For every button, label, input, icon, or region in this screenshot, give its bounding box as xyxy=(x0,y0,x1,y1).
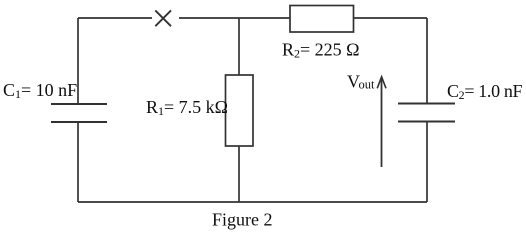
svg-text:R2= 225 Ω: R2= 225 Ω xyxy=(282,40,360,61)
svg-text:C2= 1.0 nF: C2= 1.0 nF xyxy=(447,81,523,102)
svg-text:Figure 2: Figure 2 xyxy=(212,210,273,230)
svg-text:R1= 7.5 kΩ: R1= 7.5 kΩ xyxy=(146,97,228,118)
svg-text:C1= 10 nF: C1= 10 nF xyxy=(3,80,77,101)
svg-text:Vout: Vout xyxy=(347,72,375,92)
